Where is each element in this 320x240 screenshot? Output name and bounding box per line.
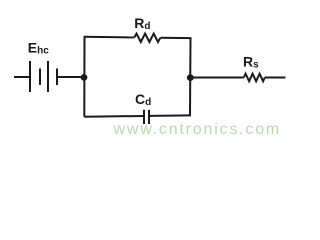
capacitor C_d xyxy=(144,110,149,124)
svg-text:Rs: Rs xyxy=(243,54,259,71)
wire bottom rail right segment xyxy=(150,114,191,117)
wire node B to R_s xyxy=(190,77,244,79)
wire left stub to battery xyxy=(14,76,30,78)
wire R_s to output xyxy=(265,77,286,79)
wire bottom rail left segment xyxy=(84,115,143,118)
node B junction dot xyxy=(187,74,194,81)
battery E_hc plates xyxy=(30,61,57,92)
svg-text:www.cntronics.com: www.cntronics.com xyxy=(113,121,282,138)
node A junction dot xyxy=(81,74,88,81)
wire right rail xyxy=(189,38,192,115)
svg-text:Cd: Cd xyxy=(135,91,151,108)
wire top rail right segment xyxy=(160,37,191,39)
resistor R_d xyxy=(134,34,160,42)
wire battery to node A xyxy=(57,76,84,78)
wire left rail xyxy=(83,37,85,117)
svg-text:Rd: Rd xyxy=(134,15,150,32)
wire top rail left segment xyxy=(84,36,135,39)
svg-text:Ehc: Ehc xyxy=(28,39,49,56)
resistor R_s xyxy=(244,74,265,82)
